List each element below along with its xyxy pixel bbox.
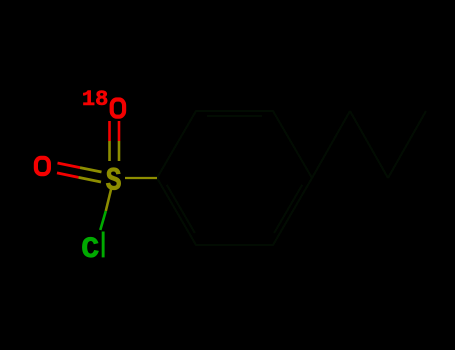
double bond S=O (left), red half [57, 163, 80, 177]
propyl chain bond C3 [388, 111, 426, 178]
benzene ring [157, 111, 312, 245]
propyl chain bond C2 [350, 111, 388, 178]
atom label Cl letter l (tall bar) [102, 232, 105, 258]
svg-text:C: C [81, 233, 99, 267]
atom label S [106, 163, 122, 199]
double bond S=18O (up), olive half [110, 141, 120, 161]
ring aromatic inner double-bond lines [167, 116, 302, 233]
propyl chain bond C1 [312, 111, 350, 178]
svg-text:18: 18 [82, 87, 108, 112]
double bond S=18O (up), red half [110, 121, 120, 141]
double bond S=O (left), olive half [79, 168, 102, 182]
atom label O (18O, top) [112, 100, 124, 117]
bond S-Cl, olive half [106, 188, 112, 212]
atom label O (left) [36, 158, 49, 174]
svg-text:S: S [106, 163, 122, 199]
bond S-C (to ring) [125, 177, 157, 179]
bond S-Cl, green half [100, 211, 106, 230]
